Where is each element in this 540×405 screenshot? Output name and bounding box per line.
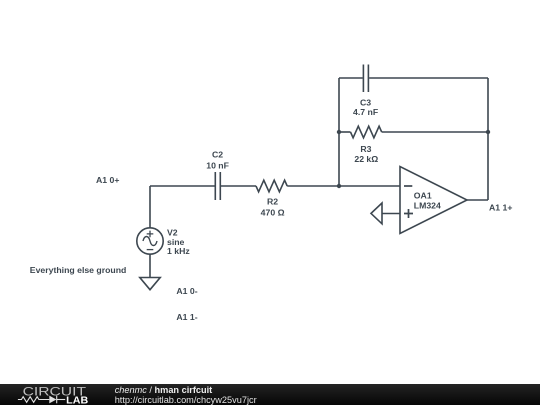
svg-text:C2: C2 (212, 149, 223, 159)
junction node R3 left (337, 130, 341, 134)
junction node main wire (337, 184, 341, 188)
capacitor C3 (363, 65, 368, 93)
svg-text:A1 0-: A1 0- (176, 286, 197, 296)
wire R3 right lead (382, 131, 488, 133)
wire op-amp output (467, 199, 488, 201)
svg-text:470 Ω: 470 Ω (261, 208, 285, 218)
svg-text:C3: C3 (360, 97, 371, 107)
logo resistor-diode glyph (18, 396, 65, 404)
svg-text:http://circuitlab.com/chcyw25v: http://circuitlab.com/chcyw25vu7jcr (115, 395, 257, 405)
op-amp U1 triangle (400, 167, 467, 234)
capacitor C2 (215, 172, 220, 200)
V2 sine waveform (143, 237, 157, 246)
wire plus input (382, 213, 400, 215)
svg-text:R3: R3 (360, 144, 371, 154)
ground at plus input (371, 203, 382, 224)
svg-text:A1 1+: A1 1+ (489, 203, 512, 213)
wire main horizontal to C2 (150, 185, 215, 187)
svg-text:R2: R2 (267, 197, 278, 207)
svg-text:Everything else ground: Everything else ground (30, 265, 127, 275)
ground below V2 (140, 278, 160, 290)
svg-text:A1 1-: A1 1- (176, 312, 197, 322)
svg-text:22 kΩ: 22 kΩ (354, 154, 378, 164)
wire feedback left vertical (338, 78, 340, 186)
op-amp minus symbol (404, 185, 412, 187)
svg-text:A1 0+: A1 0+ (96, 175, 119, 185)
svg-text:OA1: OA1 (414, 190, 432, 200)
wire C3 left lead (339, 77, 363, 79)
wire V2 bottom lead (149, 254, 151, 277)
footer bar (0, 384, 540, 405)
resistor R2 (256, 180, 287, 192)
V2 minus sign (147, 249, 154, 251)
logo diode triangle (49, 396, 56, 404)
junction node R3 right (486, 130, 490, 134)
wire feedback right vertical (487, 78, 489, 200)
svg-text:chenmc / hman cirfcuit: chenmc / hman cirfcuit (115, 385, 213, 395)
resistor R3 (351, 126, 382, 138)
wire R3 left lead (339, 131, 351, 133)
op-amp plus symbol (404, 209, 413, 218)
wire C3 right lead (369, 77, 488, 79)
svg-text:LAB: LAB (66, 395, 89, 405)
V2 plus sign (147, 231, 154, 238)
wire R2 to op-amp minus input (287, 185, 400, 187)
wire C2 to R2 (221, 185, 256, 187)
voltage source V2 (137, 228, 163, 254)
wire V2 top lead (149, 186, 151, 228)
svg-text:10 nF: 10 nF (206, 161, 229, 171)
svg-text:LM324: LM324 (414, 200, 441, 210)
svg-text:1 kHz: 1 kHz (167, 246, 190, 256)
svg-text:4.7 nF: 4.7 nF (353, 107, 378, 117)
